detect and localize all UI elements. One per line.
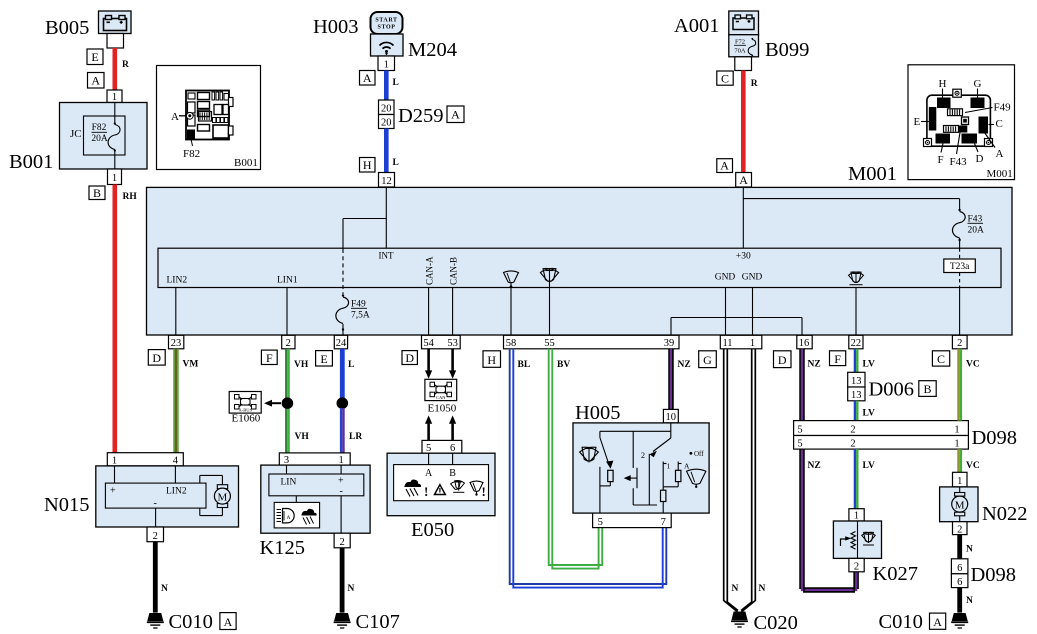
svg-text:D098: D098	[971, 564, 1017, 586]
svg-text:D259: D259	[398, 105, 444, 127]
wire N black N015 to ground	[155, 542, 168, 613]
wire R red battery to B001	[115, 48, 129, 90]
node LIN2	[167, 276, 188, 336]
svg-text:VH: VH	[295, 432, 310, 442]
label C107	[356, 611, 400, 633]
svg-text:+: +	[110, 486, 116, 497]
dashed link through T23a	[959, 248, 961, 335]
svg-text:GND: GND	[715, 273, 736, 283]
svg-text:2: 2	[286, 338, 291, 349]
svg-text:16: 16	[799, 338, 810, 349]
fuse F49 7,5A	[336, 294, 370, 335]
svg-text:E1050: E1050	[428, 403, 457, 415]
svg-text:CAN-B: CAN-B	[449, 257, 459, 285]
svg-text:E: E	[320, 352, 327, 366]
svg-text:F82: F82	[183, 148, 200, 160]
B001 fusebox location illustration	[157, 66, 261, 170]
wiper motor N015 pin strip 1 4	[107, 453, 183, 467]
connector D098 pin 6 lower	[951, 574, 968, 588]
wire N double-black pin 1 to ground C020	[741, 349, 766, 612]
svg-text:START: START	[375, 18, 397, 24]
connector D259 pin 20 upper	[379, 100, 395, 115]
wire NZ black-violet pin 39 to H005 pin 10	[669, 349, 691, 410]
svg-text:E1060: E1060	[232, 413, 261, 425]
svg-text:INT: INT	[379, 251, 394, 261]
connector under battery B005	[107, 34, 124, 49]
svg-text:F49: F49	[994, 102, 1012, 114]
pin 1 of B001 bottom	[108, 169, 122, 185]
wire arrow E050 pin 5 to splice	[425, 415, 432, 440]
svg-text:B: B	[93, 186, 101, 200]
svg-text:D006: D006	[869, 379, 915, 401]
pin 10 of H005	[663, 409, 678, 423]
svg-text:LIN2: LIN2	[166, 487, 187, 497]
connector under B099	[735, 57, 752, 71]
svg-text:STOP: STOP	[378, 25, 396, 31]
connector letter box H below pin 58	[483, 351, 501, 368]
svg-text:H: H	[363, 158, 372, 172]
svg-text:R: R	[122, 60, 129, 70]
svg-text:20A: 20A	[968, 226, 985, 236]
pin 23 of M001	[169, 335, 184, 349]
fuse holder B099 with fuse F72 70A	[729, 35, 759, 57]
svg-text:E050: E050	[411, 519, 454, 541]
node INT	[379, 251, 394, 261]
wiper output node icon	[504, 271, 519, 335]
svg-text:N: N	[966, 596, 973, 606]
svg-text:B: B	[923, 382, 931, 396]
svg-text:13: 13	[851, 390, 862, 401]
svg-text:N: N	[161, 584, 168, 594]
svg-text:13: 13	[851, 376, 862, 387]
svg-text:1: 1	[384, 60, 389, 71]
svg-text:L: L	[393, 158, 399, 168]
svg-text:1: 1	[338, 455, 343, 466]
svg-text:H003: H003	[313, 16, 359, 38]
splice arrow to E1060	[264, 400, 281, 407]
svg-text:5: 5	[598, 517, 603, 528]
svg-text:2: 2	[641, 451, 645, 460]
connector letter box E below pin 24	[316, 351, 333, 366]
svg-text:A: A	[720, 159, 729, 173]
svg-text:2: 2	[339, 537, 344, 548]
connector letter box E	[87, 49, 103, 65]
svg-text:A001: A001	[674, 15, 720, 37]
svg-text:53: 53	[447, 338, 458, 349]
pin strip 11 1 of M001	[720, 335, 762, 349]
svg-text:1: 1	[750, 338, 755, 349]
svg-text:N: N	[759, 584, 766, 594]
svg-text:2: 2	[957, 524, 962, 535]
washer pump N022	[940, 487, 978, 522]
antenna module M204	[371, 34, 404, 56]
svg-text:LIN1: LIN1	[277, 276, 298, 286]
wire VM green-brown pin 23 to N015 pin 4	[174, 349, 198, 453]
junction node on LIN wire	[282, 397, 294, 409]
svg-text:A: A	[224, 615, 233, 629]
svg-text:LIN: LIN	[281, 478, 297, 488]
wire arrow E050 pin 6 to splice	[449, 415, 456, 440]
svg-text:C010: C010	[879, 611, 923, 633]
svg-text:F: F	[834, 352, 841, 366]
label B001	[9, 151, 53, 173]
svg-text:M204: M204	[408, 39, 457, 61]
label D006	[869, 379, 915, 401]
battery A001	[729, 11, 759, 35]
svg-text:B099: B099	[765, 39, 809, 61]
svg-text:LIN2: LIN2	[167, 276, 188, 286]
connector letter box D below pin 54	[402, 351, 417, 365]
svg-text:70A: 70A	[734, 48, 746, 55]
connector D006 pin 13 upper	[848, 372, 865, 387]
svg-text:L: L	[348, 360, 354, 370]
terminal T23a	[944, 259, 976, 273]
svg-text:BL: BL	[518, 360, 531, 370]
svg-text:2: 2	[153, 531, 158, 542]
pin strip 58 55 39 of M001	[504, 335, 680, 349]
svg-text:C: C	[996, 118, 1003, 130]
svg-text:3: 3	[284, 455, 289, 466]
wire VH green junction to K125 pin 3	[286, 408, 309, 453]
wire RH red B001 to N015	[115, 185, 138, 454]
svg-text:1: 1	[667, 462, 671, 471]
svg-text:G: G	[703, 353, 712, 367]
svg-text:N: N	[966, 545, 973, 555]
connector D259 pin 20 lower	[379, 115, 395, 129]
rain light sensor K125	[261, 465, 370, 533]
svg-text:H: H	[487, 353, 496, 367]
svg-text:N022: N022	[982, 503, 1028, 525]
fuse F82 symbol and wire through B001	[108, 103, 120, 170]
label K027	[873, 563, 919, 585]
svg-text:4: 4	[173, 455, 179, 466]
connector letter box B	[89, 186, 105, 200]
connector letter box A	[88, 73, 105, 89]
svg-text:A: A	[425, 468, 433, 479]
svg-text:K027: K027	[873, 563, 919, 585]
svg-text:7,5A: 7,5A	[351, 311, 370, 321]
wire L blue M204 to D259	[386, 71, 399, 101]
connector letter box B of D006	[919, 381, 936, 397]
wire N double-black pin 11 to ground C020	[724, 349, 739, 612]
svg-text:F43: F43	[950, 156, 968, 168]
wire VC green-olive pin 2 to D098	[959, 349, 980, 421]
label C020	[754, 612, 798, 634]
pin 2 of M001 right	[952, 335, 967, 349]
svg-text:A: A	[287, 515, 291, 521]
svg-text:5: 5	[797, 425, 802, 436]
svg-text:LV: LV	[863, 360, 875, 370]
pin 2 of K027	[849, 558, 864, 572]
svg-text:D: D	[778, 353, 787, 367]
svg-text:BV: BV	[557, 360, 570, 370]
washer pump heater K027	[833, 521, 881, 558]
svg-text:20: 20	[381, 118, 392, 129]
label D259	[398, 105, 444, 127]
svg-text:2: 2	[850, 439, 855, 450]
node GND left	[715, 273, 736, 336]
svg-text:1: 1	[112, 455, 117, 466]
pin 2 of N015	[147, 527, 164, 542]
label D098	[972, 427, 1018, 449]
start-stop button H003	[371, 12, 403, 34]
label N015	[44, 494, 90, 516]
connector letter box D below pin 16	[774, 351, 792, 368]
wire LV blue-green pin 22 to D006	[855, 349, 875, 373]
svg-text:LR: LR	[349, 432, 362, 442]
svg-text:C020: C020	[754, 612, 798, 634]
svg-text:58: 58	[506, 338, 517, 349]
ground letter box A right	[930, 613, 946, 629]
svg-text:GND: GND	[742, 273, 763, 283]
wire pin A to +30 and F43 branch	[743, 187, 959, 248]
sensor E050 pin strip 5 6	[422, 440, 462, 453]
connector letter box F below pin 2	[261, 350, 277, 365]
svg-text:CAN-A: CAN-A	[425, 256, 435, 285]
svg-text:VC: VC	[966, 360, 980, 370]
svg-text:10: 10	[666, 412, 677, 423]
svg-text:1: 1	[112, 173, 117, 184]
pin 12 of M001	[379, 173, 395, 188]
svg-text:1: 1	[954, 439, 959, 450]
svg-text:H: H	[939, 78, 947, 90]
wire N black D098 to ground	[960, 588, 973, 613]
label M204	[408, 39, 457, 61]
svg-text:D098: D098	[972, 427, 1018, 449]
svg-text:Off: Off	[694, 450, 704, 458]
svg-text:5: 5	[797, 439, 802, 450]
label A001	[674, 15, 720, 37]
label C010 right	[879, 611, 923, 633]
svg-text:H005: H005	[575, 402, 621, 424]
svg-text:A: A	[363, 71, 372, 85]
label N022	[982, 503, 1028, 525]
svg-text:+30: +30	[736, 252, 751, 262]
splice E1060	[229, 392, 261, 414]
svg-text:E: E	[914, 116, 921, 128]
wire BL blue pin 58 to H005 pin 7	[510, 349, 667, 588]
svg-text:23: 23	[171, 338, 182, 349]
pin 2 of N022	[953, 522, 968, 536]
wire NZ black-violet pin 16 to K027 pin 2	[800, 349, 858, 592]
svg-text:JC: JC	[70, 128, 82, 140]
inner terminal row box of M001	[158, 248, 1001, 287]
svg-text:B001: B001	[9, 151, 53, 173]
svg-text:6: 6	[957, 577, 962, 588]
svg-text:C: C	[721, 71, 729, 85]
wire CAN-B arrow to splice E1050	[449, 349, 456, 379]
ground letter box A left	[220, 613, 236, 630]
connector letter box A	[360, 71, 376, 86]
node GND right	[742, 273, 763, 336]
svg-text:D: D	[405, 351, 414, 365]
svg-text:-: -	[340, 486, 343, 497]
label E1050	[428, 403, 457, 415]
label B099	[765, 39, 809, 61]
svg-text:M001: M001	[848, 163, 897, 185]
svg-text:VC: VC	[966, 461, 980, 471]
svg-text:2: 2	[850, 425, 855, 436]
svg-text:N: N	[732, 584, 739, 594]
label D098 lower	[971, 564, 1017, 586]
connector letter box C below pin 2	[932, 351, 949, 366]
svg-text:5: 5	[426, 443, 431, 454]
svg-text:E: E	[91, 50, 98, 64]
fuse F43 20A	[952, 209, 984, 248]
pin 1 of K027	[849, 509, 864, 522]
connector D006 pin 13 lower	[848, 387, 865, 401]
svg-text:12: 12	[381, 176, 392, 187]
svg-text:A: A	[933, 615, 942, 629]
svg-text:C107: C107	[356, 611, 400, 633]
washer pump node icon	[848, 271, 864, 336]
wire R red B099 to M001 pin A	[743, 71, 758, 173]
svg-text:NZ: NZ	[678, 360, 691, 370]
battery B005	[99, 11, 132, 34]
pin 1 of M204	[378, 56, 395, 71]
connector letter box F below pin 22	[830, 351, 846, 366]
svg-text:2: 2	[957, 338, 962, 349]
washer-wiper node icon	[540, 267, 559, 335]
svg-text:M: M	[955, 499, 965, 511]
svg-text:20A: 20A	[91, 134, 108, 144]
svg-text:7: 7	[661, 517, 666, 528]
splice E1050	[425, 379, 457, 400]
svg-text:1: 1	[957, 476, 962, 487]
svg-text:F82: F82	[92, 123, 107, 133]
svg-text:F72: F72	[735, 39, 745, 46]
svg-text:N: N	[348, 584, 355, 594]
connector letter box C	[717, 71, 733, 85]
svg-text:1: 1	[954, 425, 959, 436]
wire L blue D259 to M001 pin 12	[386, 129, 399, 173]
svg-text:C: C	[937, 352, 945, 366]
dashed branch to fuse F49	[342, 219, 344, 295]
rain light sensor K125 pin strip 3 1	[279, 453, 350, 466]
M001 fusebox location illustration	[908, 65, 1015, 180]
pin 16 of M001	[797, 335, 812, 349]
svg-text:F: F	[266, 351, 273, 365]
pin 2 of M001 left	[282, 335, 295, 349]
svg-text:D: D	[152, 351, 161, 365]
pin 22 of M001	[849, 335, 863, 349]
svg-text:A: A	[91, 74, 100, 88]
svg-text:VM: VM	[183, 360, 199, 370]
pin 2 of K125	[334, 533, 350, 548]
ground C010 left	[147, 613, 164, 628]
svg-text:NZ: NZ	[808, 360, 821, 370]
svg-text:LV: LV	[863, 461, 875, 471]
label H005	[575, 402, 621, 424]
node CAN-B	[449, 257, 459, 335]
svg-text:39: 39	[664, 338, 675, 349]
wiper stalk switch H005	[573, 423, 709, 513]
wire LR blue-violet junction to K125 pin 1	[341, 408, 362, 453]
connector letter box D below pin 23	[148, 350, 165, 366]
wire LV blue-green D006 to D098	[855, 401, 875, 421]
node LIN1	[277, 276, 298, 336]
svg-text:B001: B001	[234, 157, 258, 169]
svg-text:M: M	[218, 491, 228, 503]
svg-text:A: A	[996, 148, 1004, 160]
svg-text:CAN: CAN	[436, 395, 446, 400]
svg-text:22: 22	[851, 338, 862, 349]
connector D098 pin 6 upper	[951, 559, 968, 574]
svg-text:A: A	[451, 108, 460, 122]
wire LV blue-green D098 to K027 pin 1	[855, 449, 875, 509]
wire L blue pin 24 to junction	[342, 349, 354, 398]
svg-text:LV: LV	[863, 409, 875, 419]
wire N black K125 to ground	[342, 548, 354, 613]
pin strip 54 53 of M001	[422, 335, 461, 349]
svg-text:-: -	[154, 498, 157, 509]
connector letter box A	[717, 159, 733, 173]
ground bus to pins 39 and 16	[671, 318, 802, 336]
sensor cluster E050	[387, 453, 495, 516]
wire N black N022 to D098	[960, 535, 973, 559]
connector letter box A of D259	[447, 106, 464, 123]
label B005	[45, 17, 89, 39]
svg-text:20: 20	[381, 104, 392, 115]
connector D098 row 1 pins 5 2 1	[794, 421, 969, 436]
ground C107	[334, 613, 351, 628]
connector letter box H	[360, 158, 376, 173]
wire VC green-olive D098 to N022	[959, 449, 980, 472]
pin 1 of B001 top	[107, 90, 122, 103]
svg-text:G: G	[974, 78, 982, 90]
junction node on L wire	[337, 397, 349, 409]
label E1060	[232, 413, 261, 425]
svg-text:54: 54	[423, 338, 434, 349]
svg-text:1: 1	[854, 511, 859, 522]
svg-text:!: !	[482, 484, 486, 499]
control unit box M001	[147, 187, 1013, 335]
pin 1 of N022	[953, 472, 968, 487]
pin 24 of M001	[334, 335, 347, 349]
node +30	[736, 252, 751, 262]
svg-text:M001: M001	[987, 168, 1013, 180]
svg-text:D: D	[976, 153, 984, 165]
svg-text:L: L	[393, 78, 399, 88]
junction box B001	[60, 103, 148, 170]
label E050	[411, 519, 454, 541]
svg-text:55: 55	[544, 338, 555, 349]
svg-text:!: !	[424, 484, 428, 499]
ground C010 right	[951, 613, 968, 628]
ground C020	[731, 612, 748, 628]
svg-text:T23a: T23a	[950, 262, 970, 272]
node CAN-A	[425, 256, 435, 335]
label H003	[313, 16, 359, 38]
wire VH green pin 2 to junction	[286, 349, 309, 398]
svg-text:B: B	[449, 468, 456, 479]
wire CAN-A arrow to splice E1050	[425, 349, 432, 379]
svg-text:VH: VH	[294, 360, 309, 370]
svg-text:1: 1	[112, 92, 117, 103]
pin strip 5 7 of H005	[593, 513, 672, 528]
svg-text:A: A	[684, 462, 690, 471]
wiper motor N015	[96, 466, 239, 527]
svg-text:K125: K125	[260, 537, 306, 559]
svg-text:24: 24	[336, 338, 347, 349]
svg-text:B005: B005	[45, 17, 89, 39]
svg-text:+: +	[338, 476, 344, 487]
svg-text:F: F	[938, 154, 944, 166]
svg-text:2: 2	[854, 561, 859, 572]
svg-text:C010: C010	[169, 611, 213, 633]
svg-text:N015: N015	[44, 494, 90, 516]
label M001	[848, 163, 897, 185]
